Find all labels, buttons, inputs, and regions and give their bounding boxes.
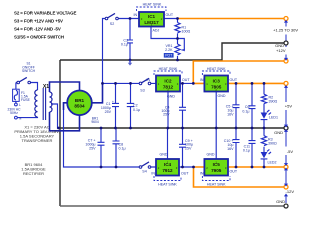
svg-text:0.1μ: 0.1μ [121,43,128,47]
svg-text:0.1μ: 0.1μ [243,149,250,153]
svg-text:LED1: LED1 [269,116,278,120]
svg-text:25V: 25V [89,147,96,151]
svg-text:100Ω: 100Ω [182,29,191,33]
svg-text:+1.25 TO 30V: +1.25 TO 30V [273,28,298,33]
svg-text:GND: GND [218,94,226,98]
svg-text:+12V: +12V [276,48,286,53]
svg-text:BR1: BR1 [75,98,85,103]
svg-text:IN: IN [146,78,150,82]
svg-text:0.1μ: 0.1μ [133,108,140,112]
svg-text:OUT: OUT [230,78,238,82]
svg-text:IC2: IC2 [164,79,172,84]
svg-text:IN: IN [151,171,155,175]
svg-text:LED2: LED2 [268,160,277,164]
svg-text:2.2K: 2.2K [165,48,173,52]
svg-text:IN: IN [200,171,204,175]
svg-text:7912: 7912 [162,168,173,173]
svg-text:GND: GND [276,199,285,204]
svg-text:7905: 7905 [211,168,222,173]
svg-text:S4: S4 [142,170,146,174]
svg-text:S2 = FOR VARIABLE VOLTAGE: S2 = FOR VARIABLE VOLTAGE [14,11,76,16]
svg-text:GND: GND [207,152,215,156]
svg-text:HEAT SINK: HEAT SINK [158,182,177,186]
svg-text:GND: GND [274,130,283,135]
svg-text:25V: 25V [163,113,170,117]
svg-text:GND: GND [160,152,168,156]
svg-text:TRANSFORMER: TRANSFORMER [22,138,53,143]
svg-text:HEAT SINK: HEAT SINK [143,3,162,7]
svg-text:HEAT SINK: HEAT SINK [207,67,226,71]
svg-text:GND: GND [167,94,175,98]
svg-text:HEAT SINK: HEAT SINK [159,67,178,71]
svg-text:S1/S5 = ON/OFF SWITCH: S1/S5 = ON/OFF SWITCH [14,35,64,40]
svg-text:X1: X1 [43,84,49,90]
svg-text:0.1μ: 0.1μ [119,147,126,151]
svg-text:POT: POT [165,54,172,58]
svg-text:390Ω: 390Ω [268,142,277,146]
svg-text:25V: 25V [185,146,192,150]
svg-text:0.1μ: 0.1μ [242,109,249,113]
svg-text:9604: 9604 [91,120,99,124]
svg-text:L: L [19,103,21,107]
svg-text:IN: IN [200,78,204,82]
svg-text:25V: 25V [105,110,112,114]
svg-text:S2: S2 [110,22,114,26]
svg-text:-12V: -12V [286,189,295,194]
svg-text:390Ω: 390Ω [269,100,278,104]
svg-text:50Hz: 50Hz [10,111,18,115]
svg-text:IC3: IC3 [213,79,221,84]
svg-text:OUT: OUT [166,13,174,17]
svg-text:IC1: IC1 [148,14,156,19]
svg-text:8504: 8504 [74,104,85,109]
svg-text:16V: 16V [227,147,234,151]
svg-text:+: + [112,100,114,104]
svg-text:16V: 16V [227,112,234,116]
svg-text:+5V: +5V [285,104,293,109]
svg-text:RECTIFIER: RECTIFIER [23,171,44,176]
svg-text:SWITCH: SWITCH [22,69,36,73]
svg-text:S3: S3 [140,88,144,92]
svg-text:FUSE: FUSE [21,98,31,102]
svg-text:ADJ: ADJ [153,29,160,33]
svg-text:HEAT SINK: HEAT SINK [207,182,226,186]
svg-text:S3 = FOR +12V AND +5V: S3 = FOR +12V AND +5V [14,19,63,24]
svg-text:S4 = FOR -12V AND -5V: S4 = FOR -12V AND -5V [14,27,61,32]
svg-text:OUT: OUT [181,171,189,175]
svg-text:IN: IN [134,13,138,17]
svg-text:OUT: OUT [182,78,190,82]
svg-text:OUT: OUT [230,170,238,174]
svg-text:-5V: -5V [287,149,294,154]
